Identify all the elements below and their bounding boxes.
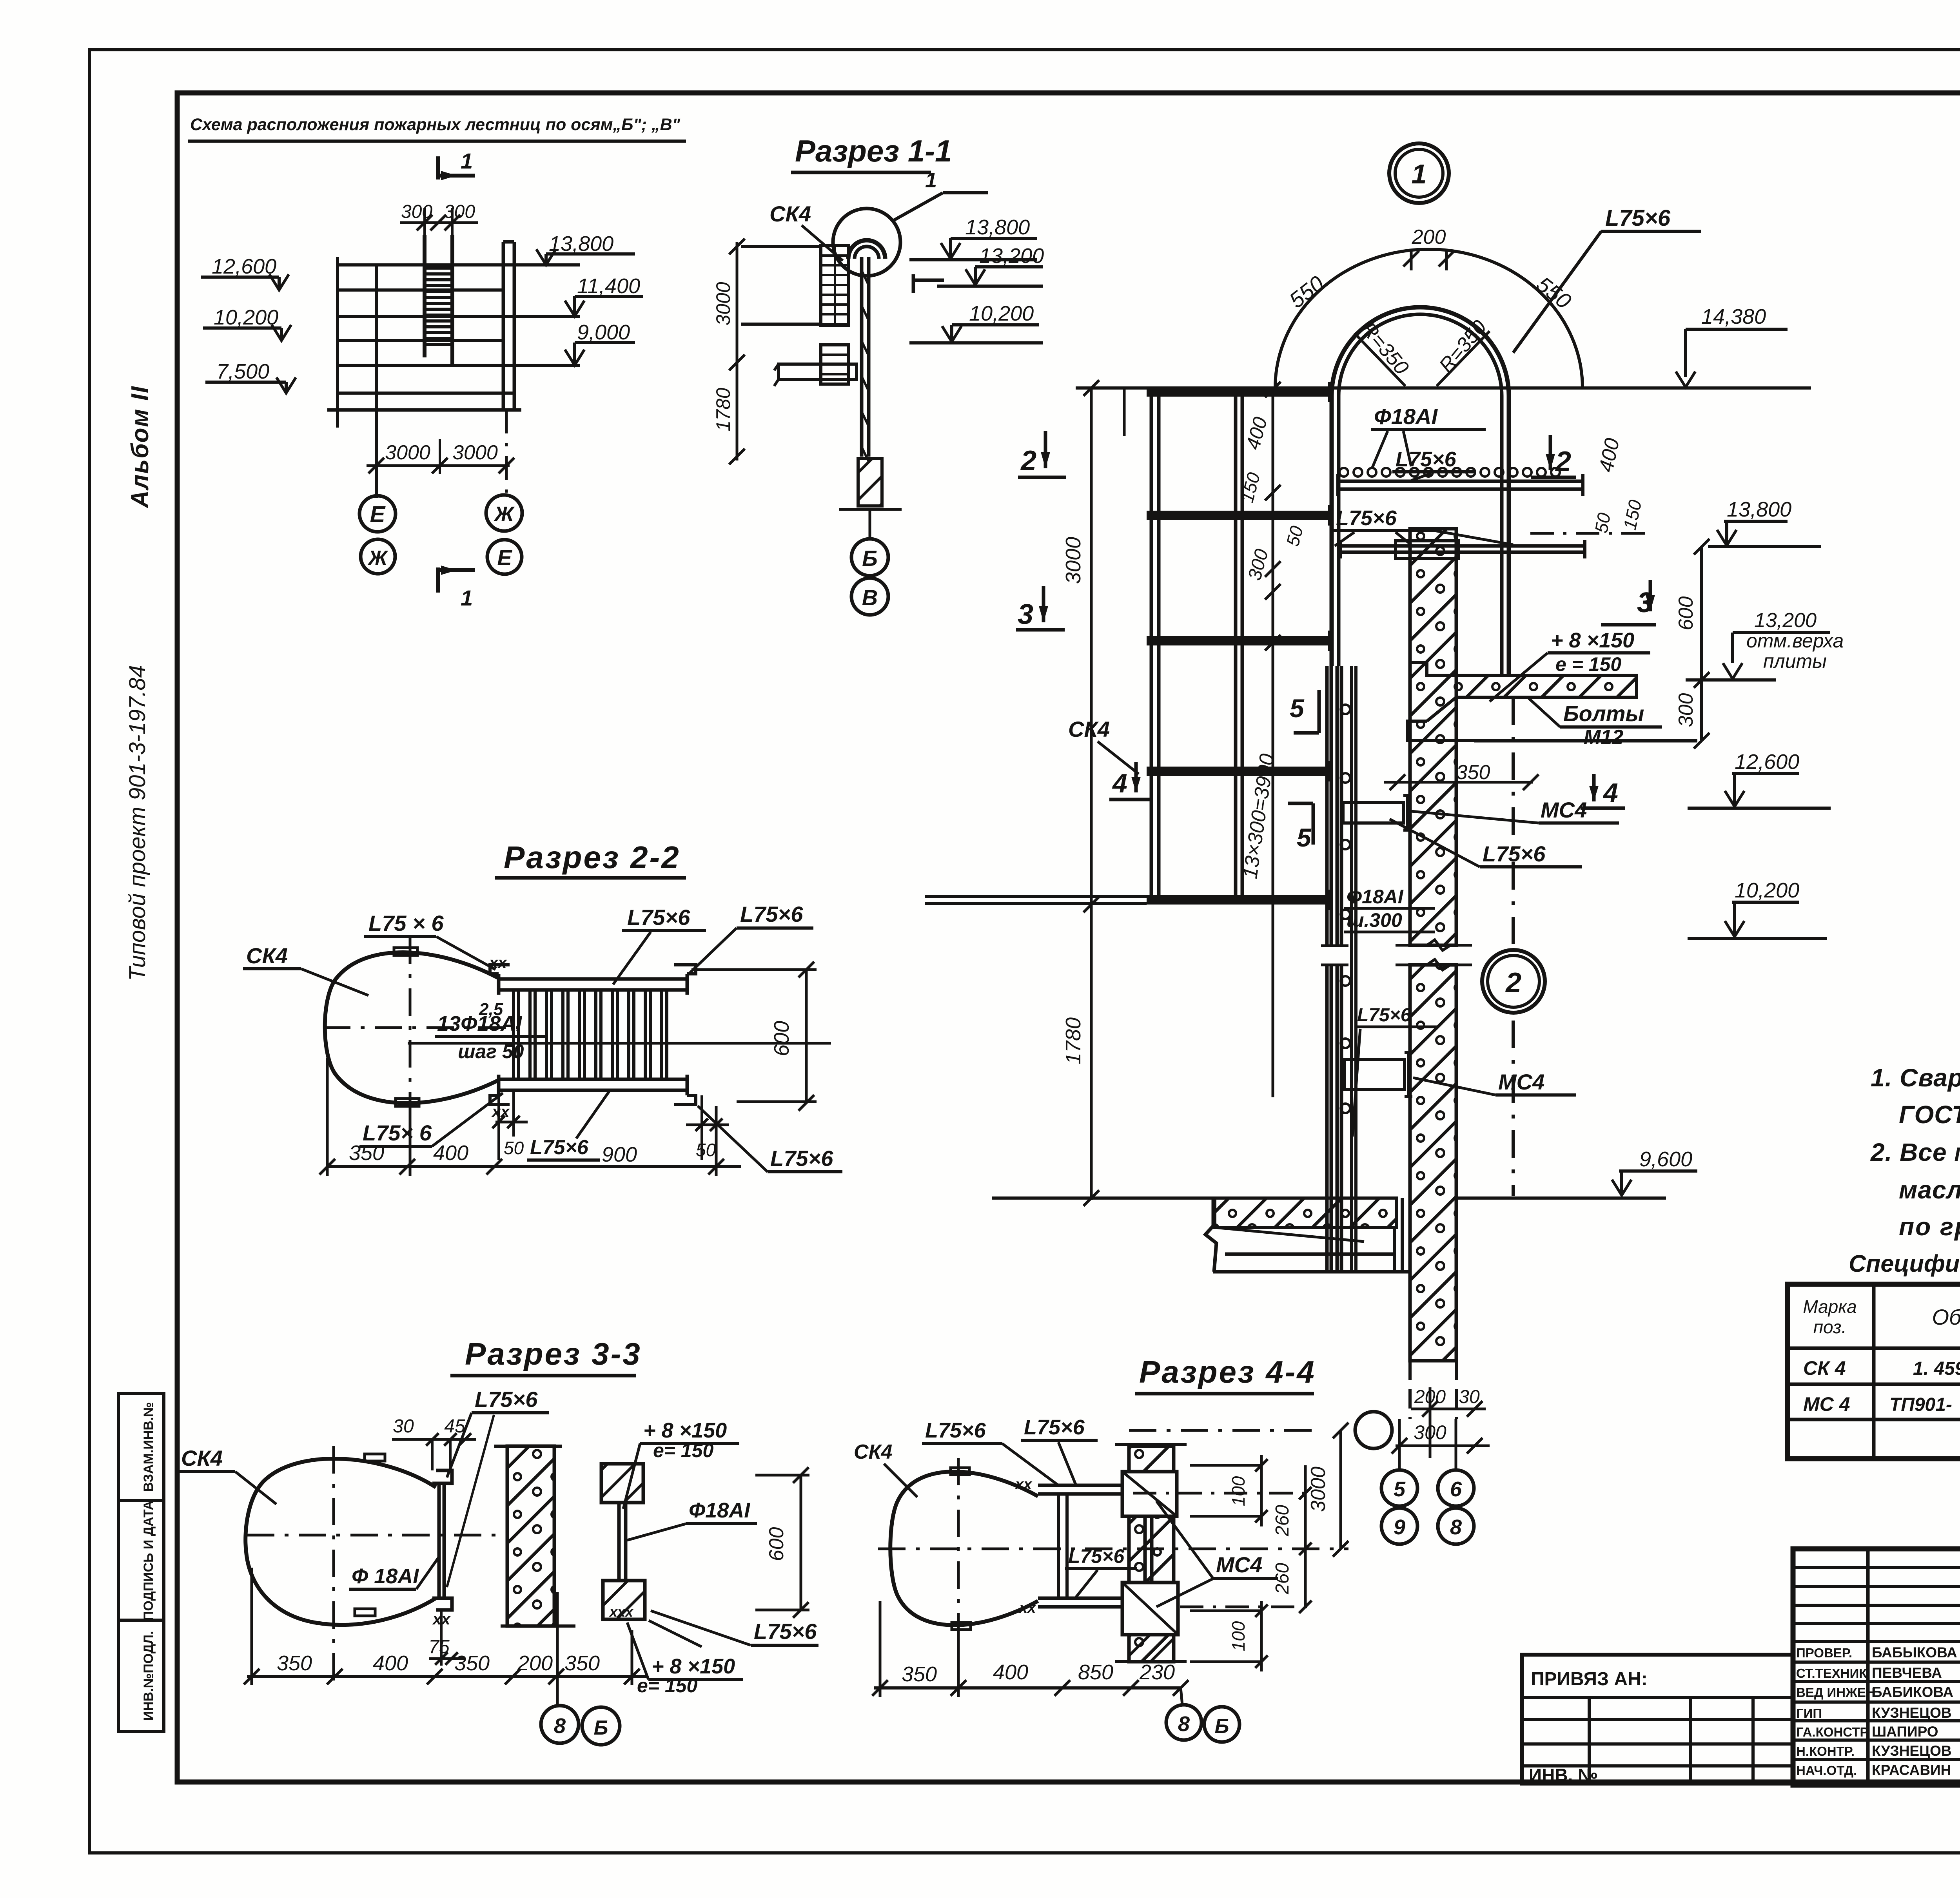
svg-text:30: 30 [1459,1387,1480,1407]
axis circle Zh bottom [361,539,395,574]
svg-text:Ф18АІ: Ф18АІ [1347,886,1404,908]
svg-text:L75 × 6: L75 × 6 [368,911,444,935]
svg-text:4: 4 [1602,778,1618,808]
axis drop lines [375,410,378,496]
svg-text:Болты: Болты [1563,701,1644,726]
dim arc 550-200-550 [1275,249,1583,388]
svg-text:ТП901-: ТП901- [1889,1394,1952,1415]
svg-text:ШАПИРО: ШАПИРО [1872,1724,1938,1740]
3-3 cage oval [245,1459,436,1625]
svg-text:13,800: 13,800 [1727,498,1791,521]
rail break [1321,946,1348,965]
svg-text:СК4: СК4 [1068,717,1110,741]
svg-text:Разрез 3-3: Разрез 3-3 [465,1336,642,1371]
svg-text:Ж: Ж [367,547,388,569]
svg-text:4: 4 [1112,769,1127,798]
svg-text:5: 5 [1394,1477,1406,1501]
svg-text:ИНВ.№ПОДЛ.: ИНВ.№ПОДЛ. [141,1631,156,1721]
svg-text:ПЕВЧЕВА: ПЕВЧЕВА [1872,1665,1942,1681]
upper MC4 bracket [1343,803,1403,823]
2-2 cage tabs [394,948,417,955]
svg-text:10,200: 10,200 [1735,879,1799,902]
3-3 dim 600 [800,1475,802,1610]
svg-text:масляной краской ГОСТ 8292-: масляной краской ГОСТ 8292-75 за 2 раза [1899,1176,1960,1204]
svg-text:50: 50 [504,1138,524,1158]
node circle 2 [1482,950,1545,1013]
svg-text:3: 3 [1018,599,1033,630]
svg-text:10,200: 10,200 [969,302,1034,325]
axis circle E bottom [487,540,522,574]
svg-text:Обозначение: Обозначение [1932,1305,1960,1329]
svg-text:260: 260 [1272,1505,1293,1537]
level line 10.200 [338,339,503,342]
svg-text:+ 8 ×150: + 8 ×150 [643,1419,727,1442]
svg-text:7,500: 7,500 [216,360,269,383]
4-4 dims right [1190,1464,1261,1467]
svg-text:СК4: СК4 [181,1446,223,1470]
svg-text:1. Сварку производить электр: 1. Сварку производить электродами типа Э… [1871,1064,1960,1092]
node circle 1 [1389,143,1449,203]
2-2 grille bottom bar [499,1078,687,1081]
bottom bar extension [925,895,1147,898]
scheme ground line [327,408,521,412]
svg-text:Ф 18АІ: Ф 18АІ [352,1564,419,1588]
svg-text:1. 459-2. Вып.2: 1. 459-2. Вып.2 [1913,1358,1960,1379]
svg-text:L75×6: L75×6 [530,1136,589,1159]
svg-text:Ф18АІ: Ф18АІ [1374,404,1438,429]
axis circle V 1-1 [851,578,888,615]
section flag 1 top [436,156,440,179]
slab support lines [1393,1229,1396,1272]
svg-text:13,200: 13,200 [979,244,1044,268]
axis circle E top [359,496,396,532]
svg-text:Спецификация к схеме расположе: Спецификация к схеме расположения пожарн… [1849,1250,1960,1277]
concrete column [1410,529,1456,945]
svg-text:КУЗНЕЦОВ: КУЗНЕЦОВ [1872,1743,1952,1759]
building line mid [741,323,821,326]
svg-text:Б: Б [1215,1715,1229,1738]
svg-text:2. Все металлические констру: 2. Все металлические конструкции окрасит… [1870,1138,1960,1166]
level line 12.600 [338,288,503,292]
ladder rail strip [860,257,864,457]
dim 3000 left main [1090,388,1093,1200]
svg-text:Схема расположения пожарных ле: Схема расположения пожарных лестниц по о… [190,115,681,134]
svg-text:МС4: МС4 [1216,1552,1262,1577]
scheme ladder rungs [425,266,452,270]
svg-text:ш.300: ш.300 [1347,909,1402,931]
svg-text:300: 300 [1414,1421,1446,1443]
svg-text:8: 8 [1178,1712,1190,1736]
svg-text:1780: 1780 [712,388,734,431]
2-2 grille top bar [499,977,687,981]
main bottom dims [1123,388,1126,436]
svg-text:Ф18АІ: Ф18АІ [689,1499,750,1522]
svg-text:200: 200 [1412,226,1446,248]
svg-text:+ 8 ×150: + 8 ×150 [1551,629,1634,652]
svg-text:L75×6: L75×6 [1483,841,1546,866]
3-3 bolt squares [601,1464,643,1503]
3-3 tabs [365,1454,385,1461]
4-4 tabs [951,1468,969,1475]
svg-text:L75×6: L75×6 [770,1146,833,1171]
title block main [1793,1549,1960,1785]
svg-text:13,800: 13,800 [965,216,1030,239]
rung stack lower [821,345,849,384]
svg-text:350: 350 [1456,761,1490,784]
rung stack [821,246,849,325]
svg-text:350: 350 [564,1651,600,1675]
svg-text:400: 400 [433,1141,468,1165]
section flag 1 bottom [436,567,440,593]
svg-text:350: 350 [349,1141,384,1165]
svg-text:ПОДПИСЬ И ДАТА: ПОДПИСЬ И ДАТА [141,1501,156,1621]
svg-text:5: 5 [1290,694,1305,723]
svg-text:L75×6: L75×6 [627,905,690,930]
svg-text:3000: 3000 [385,441,430,464]
svg-text:ГИП: ГИП [1796,1706,1822,1720]
svg-text:ВЕД ИНЖЕН: ВЕД ИНЖЕН [1796,1685,1875,1700]
svg-text:по грунтовке.: по грунтовке. [1899,1213,1960,1241]
svg-text:НАЧ.ОТД.: НАЧ.ОТД. [1796,1763,1857,1778]
svg-text:300: 300 [401,201,432,222]
svg-text:100: 100 [1228,1476,1249,1506]
4-4 bracket frame [1038,1484,1122,1487]
svg-text:10,200: 10,200 [214,306,278,329]
svg-text:350: 350 [902,1662,937,1686]
svg-text:260: 260 [1272,1563,1293,1595]
2-2 rebar center line [408,1042,831,1045]
svg-text:КРАСАВИН: КРАСАВИН [1872,1762,1951,1778]
svg-text:L75×6: L75×6 [740,902,803,926]
2-2 right dim 600 [805,970,808,1103]
4-4 center lines [878,1548,1348,1550]
svg-text:МС4: МС4 [1541,798,1587,822]
svg-text:3000: 3000 [1307,1467,1330,1512]
svg-text:9,000: 9,000 [577,321,630,344]
svg-text:L75×6: L75×6 [1068,1545,1125,1567]
bolt strip on rail [1350,666,1353,1272]
svg-text:900: 900 [602,1143,637,1166]
building line top [741,245,821,248]
svg-text:Марка: Марка [1803,1296,1857,1317]
hatched rail bottom [858,459,882,506]
svg-text:МС4: МС4 [1498,1070,1544,1094]
svg-text:350: 350 [277,1651,312,1675]
13.200 slab [1456,675,1637,697]
bottom ledge line [1213,1270,1412,1274]
svg-text:М12: М12 [1584,726,1623,749]
2-2 center lines [323,1026,529,1029]
dim 13x300 column [1272,388,1274,1097]
svg-text:2: 2 [1555,446,1571,477]
4-4 axis circles [1166,1705,1201,1740]
dim line left 1-1 [736,242,739,460]
svg-text:13,800: 13,800 [549,232,613,256]
svg-text:КУЗНЕЦОВ: КУЗНЕЦОВ [1872,1705,1952,1721]
svg-text:xx: xx [491,1103,510,1120]
4-4 wall [1129,1446,1174,1662]
cage hoop bars [1147,387,1332,397]
svg-text:L75×6: L75×6 [1396,448,1457,471]
svg-text:ПРИВЯЗ АН:: ПРИВЯЗ АН: [1531,1669,1648,1690]
svg-text:3000: 3000 [1062,537,1085,584]
cut flag at 13.200 [912,274,915,293]
safety hoop arch outer [1332,307,1509,675]
lower MC4 bracket [1344,1060,1405,1089]
ladder rail left pair [1325,666,1329,946]
3-3 plate between [617,1503,621,1581]
right rail below arch [1512,698,1515,944]
axis circle B 1-1 [851,539,888,576]
4-4 top circle [1129,1429,1322,1432]
svg-text:плиты: плиты [1763,650,1827,672]
2-2 bottom dim chain [327,1165,741,1168]
svg-text:xx: xx [488,954,507,972]
scheme vertical line 2 [375,265,378,498]
slab left profile [1407,721,1474,741]
svg-text:L75×6: L75×6 [754,1619,817,1644]
svg-text:9: 9 [1394,1515,1405,1539]
column bottom dims [1408,1361,1412,1419]
svg-text:L75×6: L75×6 [1336,506,1397,530]
svg-text:СК 4: СК 4 [1803,1357,1846,1379]
4-4 bottom hatch [1129,1635,1174,1662]
svg-text:Б: Б [594,1717,608,1739]
svg-text:6: 6 [1450,1477,1462,1501]
svg-text:БАБИКОВА: БАБИКОВА [1872,1684,1953,1700]
svg-text:350: 350 [454,1651,490,1675]
svg-text:1: 1 [461,586,473,610]
svg-text:Е: Е [370,502,386,527]
svg-text:Типовой проект 901-3-197.84: Типовой проект 901-3-197.84 [125,665,150,981]
svg-text:СК4: СК4 [854,1441,893,1463]
svg-text:1780: 1780 [1062,1017,1085,1064]
svg-text:11,400: 11,400 [577,274,640,298]
svg-text:12,600: 12,600 [212,255,276,278]
2-2 cage oval [325,952,499,1103]
axis circle 9 [1381,1508,1417,1544]
4-4 ext dashdots [1133,1492,1309,1495]
svg-text:СТ.ТЕХНИК: СТ.ТЕХНИК [1796,1666,1867,1680]
svg-text:ГА.КОНСТР: ГА.КОНСТР [1796,1725,1868,1739]
svg-text:СК4: СК4 [769,201,811,226]
level line 7.500 [338,392,514,395]
svg-text:Н.КОНТР.: Н.КОНТР. [1796,1744,1855,1758]
dashdot centerline right [1530,532,1653,535]
svg-text:230: 230 [1139,1661,1175,1684]
spec table [1788,1284,1960,1459]
scheme ladder right rail [450,235,454,364]
vertical dim 600-300 [1700,547,1703,741]
svg-text:1: 1 [1412,159,1427,189]
svg-text:1: 1 [925,169,937,192]
scheme ladder left rail [423,235,426,357]
svg-text:xx: xx [1014,1476,1033,1493]
leader to 1 [894,193,943,220]
svg-text:400: 400 [373,1651,408,1675]
svg-text:МС 4: МС 4 [1803,1393,1850,1415]
svg-text:ГОСТ9467-75, катет шва – 6: ГОСТ9467-75, катет шва – 6 мм. [1899,1100,1960,1129]
level line 13.800 [338,263,580,266]
4-4 MC4 blocks [1122,1472,1177,1516]
axis circle Zh top [486,495,522,531]
svg-text:12,600: 12,600 [1735,750,1799,774]
svg-text:600: 600 [1675,596,1697,631]
svg-text:600: 600 [770,1021,793,1056]
svg-text:600: 600 [765,1527,788,1561]
svg-text:ВЗАМ.ИНВ.№: ВЗАМ.ИНВ.№ [141,1402,156,1492]
MC4 plate under platform [1396,541,1458,558]
scheme right wall [502,242,505,412]
column break marks [1396,940,1472,950]
axis circle 8 [1438,1508,1474,1544]
svg-text:e= 150: e= 150 [653,1439,714,1461]
svg-text:L75×6: L75×6 [475,1387,538,1412]
svg-text:14,380: 14,380 [1701,305,1766,328]
safety hoop arch inner [1339,314,1502,675]
dim 300 300 top [400,221,478,224]
svg-text:8: 8 [554,1714,566,1738]
9.600 slab [1215,1198,1396,1227]
svg-text:e = 150: e = 150 [1555,653,1621,675]
svg-text:200: 200 [517,1651,553,1675]
3-3 bottom dims [247,1675,647,1678]
svg-text:200: 200 [1414,1387,1446,1407]
svg-text:8: 8 [1450,1515,1462,1539]
4-4 cage oval [890,1472,1038,1625]
svg-text:3000: 3000 [712,282,734,325]
svg-text:1: 1 [461,149,473,173]
second angle platform [1341,544,1585,548]
hoop top arc [848,240,885,259]
svg-text:2: 2 [1020,445,1036,477]
3-3 axis circles [541,1706,579,1743]
detail circle [833,208,900,276]
svg-text:xxx: xxx [609,1604,634,1620]
svg-text:L75×6: L75×6 [1024,1416,1085,1439]
svg-text:ПРОВЕР.: ПРОВЕР. [1796,1646,1852,1660]
svg-text:3000: 3000 [452,441,498,464]
platform L75x6 at 13.800 [1338,480,1583,483]
2-2 end angles [490,965,510,974]
2-2 grille bars [512,990,515,1079]
cage vertical strip 2 [1234,390,1238,905]
svg-text:2,5: 2,5 [479,1000,503,1019]
svg-text:300: 300 [444,201,475,222]
cage vertical strip 1 [1150,390,1153,905]
4-4 bottom dim [874,1686,1182,1690]
svg-text:9,600: 9,600 [1639,1148,1692,1171]
svg-text:Е: Е [497,545,512,570]
margin stamp table [118,1394,164,1731]
svg-text:400: 400 [993,1661,1028,1684]
top level line 14.380 [1076,386,1811,390]
slab bottom line [1474,739,1697,743]
svg-text:шаг 50: шаг 50 [458,1041,524,1062]
svg-text:ИНВ. №: ИНВ. № [1529,1765,1598,1785]
svg-text:850: 850 [1078,1661,1113,1684]
svg-text:xx: xx [1018,1600,1036,1616]
svg-text:Альбом II: Альбом II [127,386,154,509]
svg-text:БАБЫКОВА: БАБЫКОВА [1872,1644,1957,1661]
axis circle 5 [1381,1470,1417,1506]
svg-text:В: В [862,585,878,610]
svg-text:поз.: поз. [1813,1317,1847,1337]
svg-text:Разрез 1-1: Разрез 1-1 [795,134,952,168]
svg-text:50: 50 [696,1140,716,1160]
svg-text:Разрез 4-4: Разрез 4-4 [1139,1354,1316,1389]
svg-text:Ж: Ж [493,502,515,526]
svg-text:2: 2 [1505,967,1521,999]
svg-text:СК4: СК4 [246,943,288,968]
svg-text:13,200: 13,200 [1754,609,1817,632]
left long level line 9.600 [992,1196,1215,1200]
svg-text:30: 30 [393,1416,414,1437]
3-3 wall [507,1446,554,1626]
level line 9.000 [338,364,580,367]
svg-text:5: 5 [1297,823,1312,852]
level line 11.400 [338,315,580,318]
4-4 plate between blocks [1143,1516,1147,1583]
svg-text:L75×6: L75×6 [1605,205,1671,231]
privyazan box [1522,1655,1793,1784]
svg-text:300: 300 [1675,693,1697,727]
svg-text:Разрез 2-2: Разрез 2-2 [504,840,681,875]
svg-text:100: 100 [1228,1621,1249,1651]
axis circle 6 [1438,1470,1474,1506]
rung dots row [1339,468,1348,477]
svg-text:Б: Б [862,546,878,571]
bracket platform [779,364,857,379]
svg-text:L75×6: L75×6 [1357,1005,1411,1026]
svg-text:L75×6: L75×6 [925,1419,986,1442]
3-3 rail profile [437,1483,441,1598]
dim 3000 3000 bottom [367,464,510,467]
scheme column axis E line [336,257,339,428]
svg-text:50: 50 [1591,511,1614,535]
3-3 center lines [247,1534,497,1537]
